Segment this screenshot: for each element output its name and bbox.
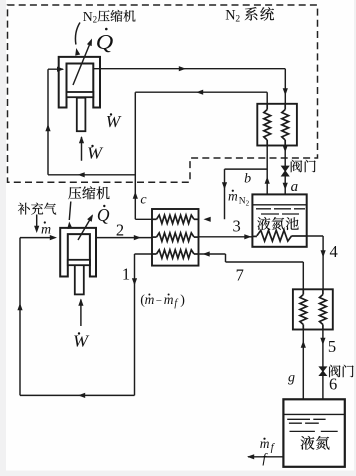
svg-text:Q: Q xyxy=(96,30,114,54)
svg-text:1: 1 xyxy=(122,264,130,283)
svg-text:2: 2 xyxy=(93,15,98,25)
svg-text:N: N xyxy=(83,9,93,24)
svg-text:N: N xyxy=(225,7,235,23)
svg-text:): ) xyxy=(180,293,185,308)
svg-text:5: 5 xyxy=(328,337,336,356)
svg-text:7: 7 xyxy=(236,265,244,284)
svg-text:6: 6 xyxy=(329,375,337,394)
svg-text:W: W xyxy=(106,112,122,131)
svg-text:b: b xyxy=(244,171,251,186)
svg-text:g: g xyxy=(288,371,295,386)
svg-text:3: 3 xyxy=(232,216,240,235)
svg-text:m: m xyxy=(41,222,51,237)
svg-text:Q: Q xyxy=(97,205,110,225)
svg-text:c: c xyxy=(140,193,147,208)
svg-text:2: 2 xyxy=(235,15,240,25)
svg-text:W: W xyxy=(87,143,103,162)
svg-text:2: 2 xyxy=(246,199,250,207)
svg-text:−: − xyxy=(156,295,162,307)
svg-text:W: W xyxy=(73,332,89,351)
svg-text:4: 4 xyxy=(329,242,337,261)
svg-text:a: a xyxy=(291,179,299,195)
svg-text:2: 2 xyxy=(116,221,124,240)
